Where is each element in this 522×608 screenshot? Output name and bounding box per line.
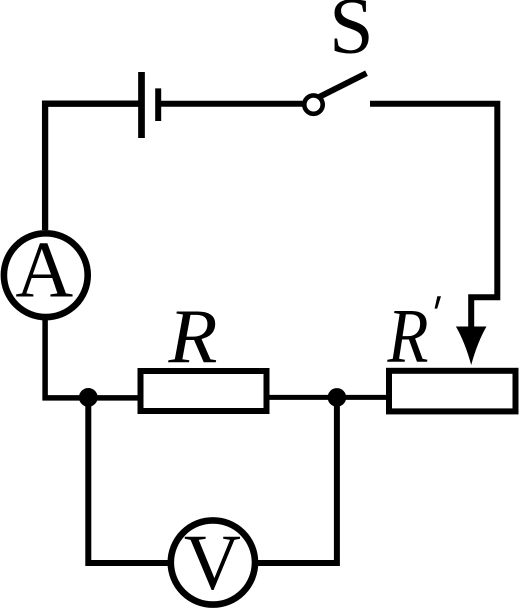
wire: battery to switch xyxy=(161,101,303,107)
resistor R box xyxy=(141,371,267,411)
wire: ammeter bottom to left junction row xyxy=(45,317,138,398)
ammeter A1 circle xyxy=(4,233,88,317)
battery long plate xyxy=(138,72,145,138)
svg-text:S: S xyxy=(329,0,374,70)
switch lever xyxy=(320,73,367,97)
wire: resistor to right junction to rheostat xyxy=(267,395,390,400)
wire: left junction down to bottom row xyxy=(88,397,170,563)
switch S pivot circle xyxy=(304,95,322,113)
node: right junction dot xyxy=(328,388,347,407)
wire: switch to top-right corner down to jog xyxy=(370,104,497,338)
voltmeter V1 circle xyxy=(171,520,255,604)
rheostat wiper arrowhead xyxy=(456,327,487,366)
rheostat R' box xyxy=(389,371,516,412)
svg-text:R: R xyxy=(387,292,429,378)
svg-text:V: V xyxy=(184,520,241,607)
svg-text:R: R xyxy=(167,293,217,379)
wire: top-left (ammeter top to battery) xyxy=(45,104,138,230)
svg-text:A: A xyxy=(15,226,73,314)
label R' prime mark xyxy=(435,296,441,308)
wire: right junction down to bottom row xyxy=(256,397,337,563)
battery short plate xyxy=(155,88,161,121)
node: left junction dot xyxy=(79,388,98,407)
